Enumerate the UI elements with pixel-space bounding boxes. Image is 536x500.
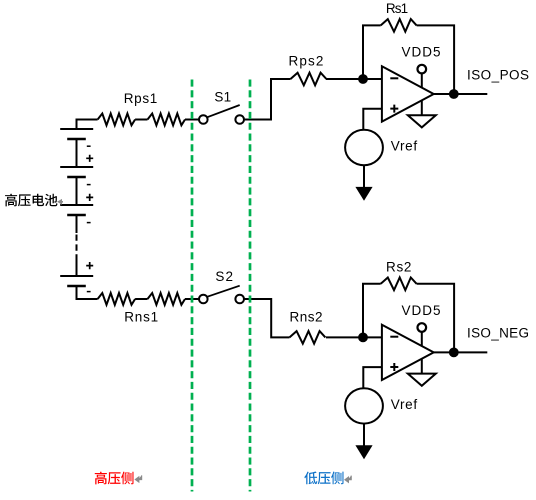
- battery cell 4 negative plate: [67, 285, 86, 288]
- svg-text:ISO_NEG: ISO_NEG: [467, 326, 529, 341]
- wire: output ISO_POS: [434, 93, 488, 95]
- wire: ground stem: [421, 359, 423, 373]
- battery polarity mark +: [86, 155, 93, 162]
- svg-text:Rs2: Rs2: [386, 259, 412, 274]
- wire: non-inverting input to Vref: [363, 109, 382, 130]
- op-amp U1: [382, 66, 434, 121]
- VDD5 pin circle: [418, 65, 427, 74]
- wire: Vref to ground arrow: [363, 424, 365, 447]
- resistor Rns1 (group 2): [148, 293, 186, 305]
- battery cell 3 positive plate: [60, 204, 93, 206]
- isolation barrier dashed line (left): [191, 80, 194, 492]
- resistor Rps1 (group 2): [148, 114, 186, 126]
- wire: output ISO_NEG: [434, 351, 488, 353]
- battery cell 2 negative plate: [67, 176, 86, 179]
- node output junction: [450, 349, 458, 357]
- wire: feedback left riser: [363, 284, 381, 338]
- svg-text:Rps2: Rps2: [289, 53, 324, 68]
- wire: cell2-cell3 link: [76, 177, 78, 205]
- wire: Rps1 mid link: [135, 119, 147, 121]
- label 高压电池 (HV battery): [5, 194, 57, 207]
- battery polarity mark -: [87, 184, 91, 186]
- voltage source Vref: [345, 388, 383, 423]
- battery cell 1 negative plate: [67, 138, 86, 141]
- svg-text:VDD5: VDD5: [402, 303, 441, 318]
- wire: feedback left riser: [363, 25, 381, 79]
- wire: Rns1 mid link: [135, 298, 147, 300]
- wire: non-inverting input to Vref: [363, 367, 382, 388]
- op-amp plus pin mark: [390, 363, 398, 371]
- svg-text:S1: S1: [214, 90, 231, 105]
- paragraph mark after 高压侧: [135, 475, 141, 482]
- resistor Rns2: [290, 331, 326, 344]
- switch S2 lever: [207, 286, 239, 297]
- ground arrow (filled): [355, 187, 372, 201]
- wire: cell3 to dashed link: [76, 215, 78, 233]
- resistor Rps2: [291, 73, 327, 86]
- battery cell 1 positive plate: [60, 128, 93, 130]
- resistor Rps1 (group 1): [98, 114, 136, 126]
- wire: dashed link to cell4: [76, 257, 78, 276]
- wire: VDD5 stem: [421, 332, 423, 346]
- wire: dashed continuation (omitted cells): [76, 235, 78, 258]
- battery cell 2 positive plate: [60, 166, 93, 168]
- ground (open triangle): [408, 115, 436, 127]
- switch S1 lever: [207, 105, 239, 117]
- svg-text:Rs1: Rs1: [386, 1, 408, 16]
- wire: 2 inverting-input net: [326, 336, 382, 338]
- ground arrow (filled): [355, 445, 372, 459]
- battery polarity mark -: [87, 222, 91, 224]
- battery polarity mark +: [86, 194, 93, 201]
- battery polarity mark -: [87, 291, 91, 293]
- callout arrow to battery: [57, 199, 63, 205]
- wire: feedback top + right riser: [417, 284, 455, 353]
- isolation barrier dashed line (right): [249, 80, 252, 492]
- node 2 summing junction: [359, 334, 367, 342]
- switch S1 pole contact: [199, 115, 208, 124]
- node 1 summing junction: [359, 75, 367, 83]
- paragraph mark after 低压侧: [345, 476, 351, 483]
- switch S1 throw contact: [235, 115, 244, 124]
- resistor Rns1 (group 1): [98, 293, 136, 305]
- wire: cell1-cell2 link: [76, 139, 78, 167]
- svg-text:Rns2: Rns2: [290, 309, 323, 324]
- wire: S1 to Rps2 riser: [244, 79, 291, 120]
- node output junction: [450, 90, 458, 98]
- VDD5 pin circle: [418, 323, 427, 332]
- op-amp U2: [382, 325, 434, 380]
- wire: S2 to Rns2 riser: [244, 299, 290, 337]
- switch S2 pole contact: [199, 295, 208, 304]
- svg-text:Rps1: Rps1: [124, 91, 158, 106]
- battery cell 3 negative plate: [67, 214, 86, 217]
- wire: Rns1 to S2: [185, 298, 199, 300]
- op-amp plus pin mark: [390, 105, 398, 113]
- wire: Rps1 to S1: [185, 119, 199, 121]
- svg-text:ISO_POS: ISO_POS: [467, 67, 529, 82]
- label 低压侧 (LV side): [304, 472, 343, 485]
- svg-text:VDD5: VDD5: [402, 44, 441, 59]
- svg-text:Vref: Vref: [391, 138, 418, 153]
- svg-text:Rns1: Rns1: [124, 309, 158, 324]
- battery cell 4 positive plate: [60, 275, 93, 277]
- resistor Rs1 (feedback): [381, 19, 417, 32]
- ground (open triangle): [408, 374, 436, 386]
- wire: VDD5 stem: [421, 73, 423, 87]
- wire: battery negative terminal to Rns1: [77, 286, 98, 299]
- wire: ground stem: [421, 101, 423, 115]
- svg-text:Vref: Vref: [391, 397, 418, 412]
- voltage source Vref: [345, 130, 383, 165]
- svg-text:S2: S2: [215, 269, 233, 284]
- resistor Rs2 (feedback): [381, 278, 417, 291]
- wire: battery positive terminal to Rps1: [77, 120, 98, 130]
- wire: Vref to ground arrow: [363, 165, 365, 188]
- label 高压侧 (HV side): [95, 472, 134, 485]
- op-amp minus pin mark: [390, 336, 398, 338]
- wire: feedback top + right riser: [417, 25, 455, 94]
- battery polarity mark +: [86, 262, 93, 269]
- switch S2 throw contact: [235, 295, 244, 304]
- battery polarity mark -: [87, 145, 91, 147]
- wire: 1 inverting-input net: [326, 78, 382, 80]
- op-amp minus pin mark: [390, 77, 398, 79]
